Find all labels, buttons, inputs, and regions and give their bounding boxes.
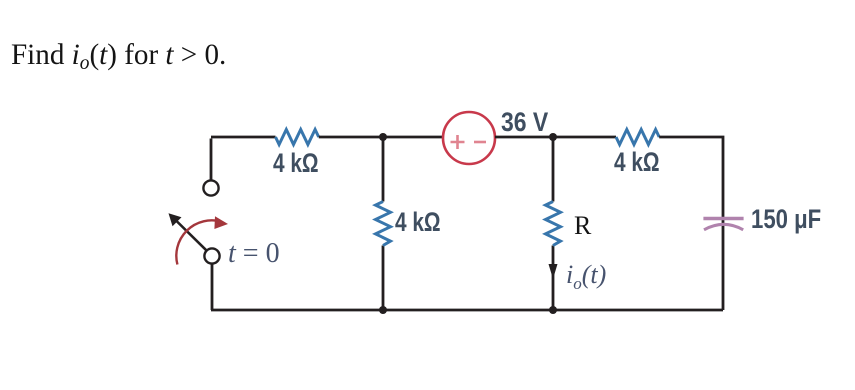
- switch S1 upper terminal: [203, 180, 218, 195]
- capacitor C1 150uF plates: [703, 219, 743, 230]
- current arrow io(t): [549, 264, 558, 279]
- wire: top segment node B to R3: [553, 136, 616, 139]
- wire: top segment source to node B: [495, 136, 553, 139]
- wire: left bottom vertical (below switch): [211, 263, 214, 310]
- resistor R2 4k (middle vertical zigzag): [376, 202, 391, 246]
- wire: middle branch vertical: [382, 137, 385, 310]
- title: Find io(t) for t > 0.: [11, 38, 226, 75]
- switch S1 lower terminal: [204, 248, 219, 263]
- wire: top middle segment to source: [319, 136, 443, 139]
- label R2 value 4 kOhm: [395, 207, 441, 238]
- resistor R (vertical zigzag): [546, 202, 561, 246]
- label R1 value 4 kOhm: [273, 148, 319, 179]
- wire: top right corner and right side down: [659, 137, 723, 310]
- node B junction dot top-right-of-source: [549, 133, 557, 141]
- label R designator: [574, 211, 591, 241]
- switch S1 blade with arrow: [169, 213, 207, 250]
- resistor R3 4k (top-right zigzag): [616, 130, 659, 145]
- label io(t) current: [566, 260, 606, 294]
- label source value 36 V: [501, 107, 548, 138]
- wire: R branch vertical: [552, 137, 555, 310]
- wire: top left segment: [211, 137, 276, 181]
- node D junction dot bottom-R: [549, 306, 557, 314]
- switch S1 closing arc (red arrow): [176, 216, 228, 264]
- label C1 value 150 uF: [751, 204, 821, 235]
- label t = 0 switch time: [228, 238, 280, 270]
- label R3 value 4 kOhm: [614, 147, 660, 178]
- node C junction dot bottom-middle: [379, 306, 387, 314]
- wire: bottom rail: [211, 309, 723, 312]
- voltage source U1 36V: [443, 112, 495, 164]
- resistor R1 4k (top-left zigzag): [276, 130, 319, 145]
- node A junction dot top-middle: [379, 133, 387, 141]
